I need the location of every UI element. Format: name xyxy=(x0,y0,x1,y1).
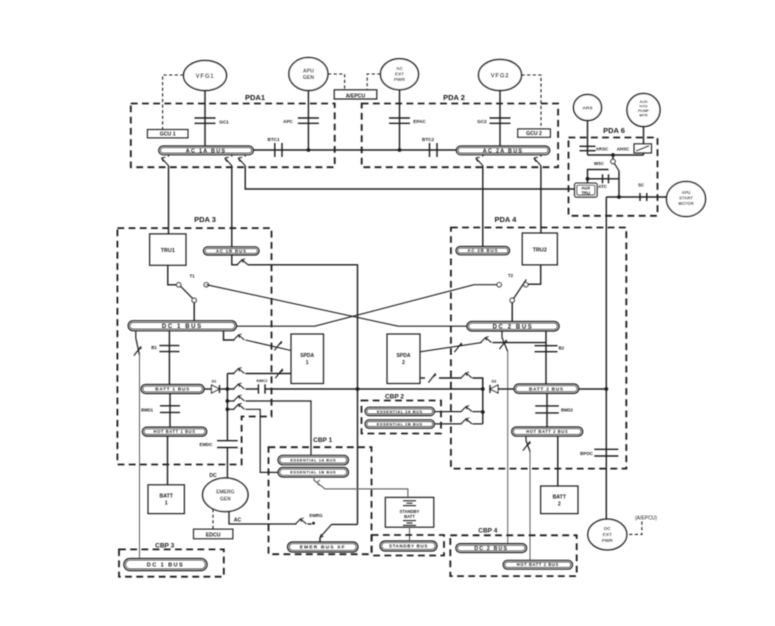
svg-text:ARS: ARS xyxy=(582,106,593,112)
svg-text:ESSENTIAL 2B BUS: ESSENTIAL 2B BUS xyxy=(377,421,423,426)
svg-text:1: 1 xyxy=(165,501,168,507)
svg-text:BATT 1 BUS: BATT 1 BUS xyxy=(155,387,190,392)
svg-text:BATT 2 BUS: BATT 2 BUS xyxy=(529,386,564,391)
svg-text:DC: DC xyxy=(604,526,611,532)
svg-text:DC 1 BUS: DC 1 BUS xyxy=(162,324,203,330)
svg-text:EXT: EXT xyxy=(395,72,404,77)
svg-text:GCU 1: GCU 1 xyxy=(160,131,176,137)
svg-text:CBP 1: CBP 1 xyxy=(313,437,332,444)
svg-text:APC: APC xyxy=(283,119,293,124)
svg-text:GC2: GC2 xyxy=(477,119,487,124)
svg-text:PDA 2: PDA 2 xyxy=(443,93,465,102)
svg-text:SPDA: SPDA xyxy=(300,353,314,359)
svg-text:PDA 6: PDA 6 xyxy=(603,126,625,135)
svg-text:PDA 3: PDA 3 xyxy=(194,215,216,224)
svg-text:EMRG: EMRG xyxy=(309,513,323,518)
svg-text:ATC: ATC xyxy=(598,184,608,189)
svg-text:B1: B1 xyxy=(151,345,157,350)
svg-text:GC1: GC1 xyxy=(219,120,229,125)
svg-text:(A/EPCU): (A/EPCU) xyxy=(635,516,657,522)
svg-text:EPAC: EPAC xyxy=(413,119,426,124)
svg-text:VFG1: VFG1 xyxy=(196,74,215,80)
svg-text:PDA1: PDA1 xyxy=(245,93,265,102)
svg-text:TRU2: TRU2 xyxy=(533,248,547,254)
svg-text:DC 2 BUS: DC 2 BUS xyxy=(474,546,508,552)
svg-text:AC: AC xyxy=(234,518,242,524)
svg-text:VFG2: VFG2 xyxy=(491,74,510,80)
svg-text:GCU 2: GCU 2 xyxy=(526,131,542,137)
svg-text:ARSC: ARSC xyxy=(596,147,609,152)
svg-text:BMD1: BMD1 xyxy=(141,408,154,413)
svg-text:BATT: BATT xyxy=(553,495,567,501)
svg-text:AUX: AUX xyxy=(639,100,647,104)
svg-text:HOT BATT 1 BUS: HOT BATT 1 BUS xyxy=(154,429,196,434)
svg-text:TRU: TRU xyxy=(581,190,590,195)
svg-text:AHSC: AHSC xyxy=(617,147,630,152)
svg-text:ESSENTIAL 2A BUS: ESSENTIAL 2A BUS xyxy=(377,409,423,414)
svg-text:STANDBY BUS: STANDBY BUS xyxy=(389,544,428,549)
svg-text:HYD: HYD xyxy=(639,105,647,109)
svg-text:MOTOR: MOTOR xyxy=(678,201,694,206)
svg-text:AC 1B BUS: AC 1B BUS xyxy=(216,248,247,253)
svg-text:A/EPCU: A/EPCU xyxy=(346,93,366,99)
svg-text:START: START xyxy=(679,196,693,201)
svg-text:PUMP: PUMP xyxy=(638,109,649,113)
svg-text:1: 1 xyxy=(306,360,309,366)
svg-text:DC 1 BUS: DC 1 BUS xyxy=(147,563,184,569)
svg-text:HOT BATT 2 BUS: HOT BATT 2 BUS xyxy=(517,562,559,567)
svg-text:EMDC: EMDC xyxy=(200,442,214,447)
svg-text:BMD2: BMD2 xyxy=(561,408,574,413)
svg-text:APU: APU xyxy=(682,190,691,195)
svg-text:T1: T1 xyxy=(189,274,195,279)
svg-text:D1: D1 xyxy=(212,380,217,384)
svg-text:GEN: GEN xyxy=(220,497,231,503)
svg-text:TRU1: TRU1 xyxy=(161,248,175,254)
svg-text:BATT: BATT xyxy=(404,514,415,519)
svg-text:AC 2A BUS: AC 2A BUS xyxy=(483,148,524,154)
svg-text:ESSENTIAL 1B BUS: ESSENTIAL 1B BUS xyxy=(290,470,336,475)
svg-text:GEN: GEN xyxy=(303,75,314,81)
svg-text:EMERG: EMERG xyxy=(216,490,234,496)
svg-text:B2: B2 xyxy=(559,346,565,351)
svg-text:2: 2 xyxy=(558,502,561,508)
svg-text:BTC1: BTC1 xyxy=(268,137,280,142)
svg-text:MSC: MSC xyxy=(594,161,605,166)
svg-text:BTC2: BTC2 xyxy=(422,137,434,142)
svg-text:EMER BUS XF: EMER BUS XF xyxy=(300,545,346,551)
svg-text:BATT: BATT xyxy=(159,494,173,500)
svg-text:2: 2 xyxy=(402,360,405,366)
svg-text:DC: DC xyxy=(209,473,217,479)
svg-text:BPOC: BPOC xyxy=(580,451,594,456)
svg-text:SPDA: SPDA xyxy=(397,353,411,359)
svg-text:MTR: MTR xyxy=(639,114,647,118)
svg-text:DC 2 BUS: DC 2 BUS xyxy=(493,324,534,330)
svg-text:AC 1A BUS: AC 1A BUS xyxy=(186,148,227,154)
svg-text:ESSENTIAL 1A BUS: ESSENTIAL 1A BUS xyxy=(290,457,336,462)
svg-text:AC 2B BUS: AC 2B BUS xyxy=(467,248,498,253)
svg-text:HOT BATT 2 BUS: HOT BATT 2 BUS xyxy=(526,429,568,434)
svg-text:PDA 4: PDA 4 xyxy=(494,215,517,224)
svg-text:SC: SC xyxy=(638,183,645,188)
svg-text:T2: T2 xyxy=(508,273,514,278)
svg-text:EDCU: EDCU xyxy=(206,533,221,539)
svg-text:PWR: PWR xyxy=(602,538,614,544)
svg-text:APU: APU xyxy=(303,69,314,75)
svg-text:PWR: PWR xyxy=(394,77,406,82)
svg-text:CBP 4: CBP 4 xyxy=(478,528,497,535)
svg-text:KMC1: KMC1 xyxy=(256,378,268,383)
svg-text:CBP 3: CBP 3 xyxy=(155,543,174,550)
svg-text:AC: AC xyxy=(396,66,403,71)
svg-text:EXT: EXT xyxy=(603,532,612,538)
svg-text:D2: D2 xyxy=(492,380,497,384)
svg-text:CBP 2: CBP 2 xyxy=(385,394,404,401)
